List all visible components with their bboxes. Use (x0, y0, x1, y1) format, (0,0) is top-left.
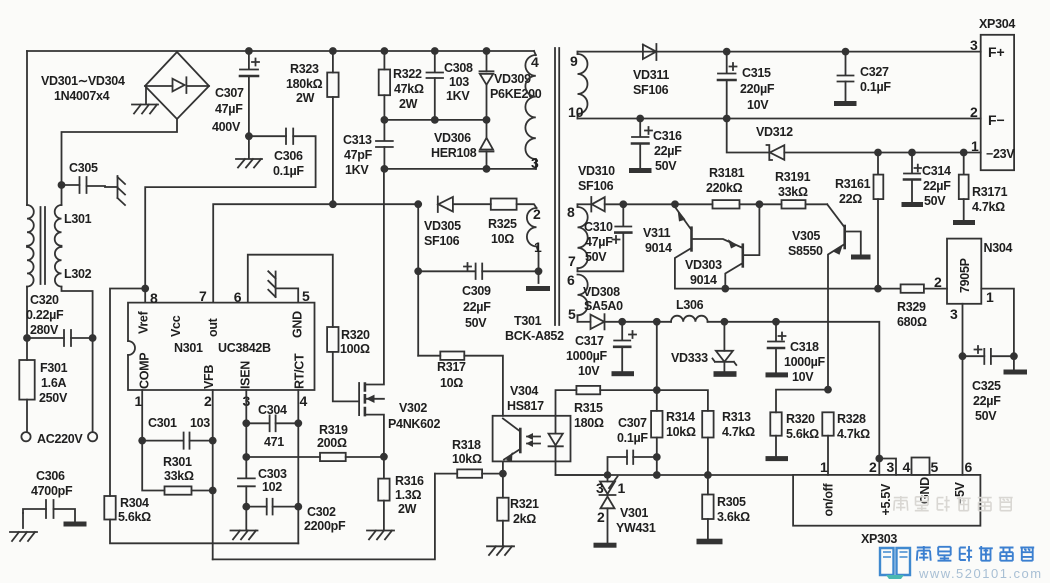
node: -23V line at R3161 (874, 149, 882, 157)
svg-text:200Ω: 200Ω (317, 436, 347, 450)
node: pin8/Vref junction (141, 285, 149, 303)
ground bar (black) below R320 (766, 456, 789, 461)
ground bar (black) below C317 (612, 371, 635, 376)
wire: protection line to R329 node (675, 285, 878, 293)
svg-text:47pF: 47pF (344, 148, 373, 162)
wire: bridge bottom to C305 node (62, 119, 178, 205)
svg-text:3: 3 (596, 480, 604, 496)
svg-text:50V: 50V (975, 409, 997, 423)
ground bar (black) at C306 right (64, 522, 87, 527)
svg-text:on/off: on/off (822, 482, 836, 516)
inductor L301 (common-mode choke upper) (27, 205, 92, 246)
resistor R304 5.6kQ (104, 496, 298, 543)
wire: +5.5V rail right (708, 318, 880, 475)
transformer secondary winding 9-10 (568, 52, 588, 120)
label AC220V (37, 432, 83, 446)
inductor L302 (common-mode choke lower) (27, 247, 92, 287)
wire: left AC rail down to choke (26, 51, 28, 205)
wire: N304 pin3 to -5V (962, 304, 964, 475)
svg-text:1.6A: 1.6A (41, 376, 66, 390)
svg-text:C316: C316 (653, 129, 682, 143)
svg-text:S8550: S8550 (788, 244, 823, 258)
svg-text:R318: R318 (452, 438, 481, 452)
wire: F- line pin10 (578, 115, 981, 123)
svg-text:C301: C301 (148, 416, 177, 430)
IC N301 UC3842B (128, 303, 315, 390)
svg-text:L306: L306 (676, 298, 704, 312)
transistor V311 9014 (643, 204, 692, 288)
watermark ghost text (894, 496, 1013, 512)
svg-text:R3161: R3161 (835, 177, 871, 191)
capacitor C314 22uF 50V (electrolytic) (904, 153, 951, 209)
capacitor C306 0.1uF (145, 129, 315, 289)
svg-text:R328: R328 (837, 412, 866, 426)
svg-text:2: 2 (533, 206, 541, 222)
svg-text:4.7kΩ: 4.7kΩ (722, 425, 755, 439)
capacitor C309 22uF 50V (electrolytic) (418, 263, 538, 330)
wire: opto emitter (499, 461, 507, 477)
svg-text:VD301∼VD304: VD301∼VD304 (41, 74, 125, 88)
svg-text:V302: V302 (399, 401, 427, 415)
node: HV rail at VD309 (483, 47, 491, 55)
svg-text:R320: R320 (786, 412, 815, 426)
node: HV rail at C307 (245, 47, 253, 55)
svg-text:R304: R304 (120, 496, 149, 510)
svg-text:50V: 50V (585, 250, 607, 264)
diode VD311 SF106 (633, 44, 669, 97)
svg-text:C303: C303 (258, 467, 287, 481)
pin number 3 (243, 393, 251, 409)
transformer secondary winding 8-7 (567, 204, 588, 271)
resistor R320 100Q (gate drive) (327, 327, 370, 401)
svg-text:V311: V311 (643, 226, 671, 240)
ground (bridge left corner, chassis) (132, 86, 158, 114)
ground bar (black) below R3171 (953, 220, 975, 225)
svg-text:180Ω: 180Ω (574, 416, 604, 430)
regulator N304 7905P (934, 239, 1013, 322)
wire: reference line to XP303 (556, 471, 794, 479)
svg-text:V301: V301 (620, 506, 648, 520)
svg-text:1KV: 1KV (345, 163, 369, 177)
svg-text:VFB: VFB (202, 365, 216, 389)
resistor R3191 33kQ (775, 170, 811, 209)
pin number 2 (204, 393, 212, 409)
svg-text:9014: 9014 (690, 273, 717, 287)
capacitor C325 22uF 50V (electrolytic) (959, 346, 1018, 423)
svg-text:280V: 280V (30, 323, 59, 337)
svg-text:9: 9 (570, 53, 578, 69)
svg-text:C307: C307 (618, 416, 647, 430)
wire: F+ line pin9 (578, 51, 981, 53)
svg-text:9014: 9014 (645, 241, 672, 255)
svg-text:R322: R322 (393, 67, 422, 81)
svg-text:+5.5V: +5.5V (879, 483, 893, 515)
pin number 5 XP303 (931, 459, 939, 475)
svg-text:8: 8 (150, 290, 158, 306)
pin number 7 (199, 288, 207, 304)
svg-text:www.520101.com: www.520101.com (918, 566, 1043, 581)
resistor R3171 4.7kQ (959, 153, 1008, 221)
svg-text:F301: F301 (40, 361, 68, 375)
svg-text:4700pF: 4700pF (31, 484, 73, 498)
node: HV rail at C308 (431, 47, 439, 55)
svg-text:VD303: VD303 (685, 258, 722, 272)
svg-text:COMP: COMP (138, 353, 152, 389)
svg-text:R319: R319 (319, 423, 348, 437)
svg-text:R323: R323 (290, 62, 319, 76)
terminal AC220V right (88, 432, 97, 441)
resistor R319 200Q (246, 423, 384, 461)
pin number 1 (135, 393, 143, 409)
svg-text:6: 6 (567, 272, 575, 288)
svg-text:5: 5 (302, 288, 310, 304)
diode VD306 HER108 (431, 120, 494, 169)
svg-text:VD305: VD305 (424, 219, 461, 233)
svg-text:2200pF: 2200pF (304, 519, 346, 533)
svg-text:7905P: 7905P (958, 258, 972, 293)
svg-text:R321: R321 (510, 497, 539, 511)
svg-text:V304: V304 (510, 384, 538, 398)
node: R329 junction (874, 285, 882, 293)
wire: pin8 node to R304 rail (110, 289, 145, 497)
svg-text:2W: 2W (399, 97, 418, 111)
resistor R316 1.3Q 2W (378, 457, 424, 531)
svg-text:33kΩ: 33kΩ (778, 185, 808, 199)
svg-text:3: 3 (531, 155, 539, 171)
transistor V302 P4NK602 (MOSFET) (359, 169, 440, 457)
capacitor C302 2200pF (242, 499, 346, 533)
svg-text:4: 4 (531, 54, 539, 70)
diode VD305 SF106 (414, 197, 490, 249)
node: HV rail at R323 (329, 47, 337, 55)
node: aux winding pin1 (535, 267, 543, 283)
pin number 3 XP303 (887, 459, 895, 475)
resistor R315 180Q (574, 386, 657, 430)
svg-text:SF106: SF106 (633, 83, 669, 97)
transformer secondary winding 6-5 (567, 272, 588, 322)
svg-text:0.1µF: 0.1µF (617, 431, 648, 445)
capacitor C320 0.22uF 280V (23, 293, 96, 346)
svg-text:R316: R316 (395, 474, 424, 488)
svg-text:10Ω: 10Ω (440, 376, 463, 390)
svg-text:GND: GND (291, 311, 305, 338)
wire: right rail choke to C320 and AC terminal (62, 287, 93, 432)
svg-text:SF106: SF106 (578, 179, 614, 193)
transformer T301 BCK-A852 primary winding 4-3 (525, 51, 539, 171)
pin number 4 XP303 (903, 459, 911, 475)
svg-text:5: 5 (568, 306, 576, 322)
svg-text:10V: 10V (578, 364, 600, 378)
svg-text:1: 1 (618, 480, 626, 496)
svg-text:R301: R301 (163, 455, 192, 469)
diode VD310 SF106 (578, 164, 624, 212)
ground bar (black) below C325 (1004, 370, 1028, 375)
wire: bottom feedback rail (213, 474, 435, 560)
svg-text:1: 1 (986, 289, 994, 305)
svg-text:C320: C320 (30, 293, 59, 307)
node: -23V line at C314 (908, 149, 916, 157)
svg-text:1: 1 (971, 138, 979, 154)
svg-text:2W: 2W (398, 502, 417, 516)
svg-text:2: 2 (869, 459, 877, 475)
ground (chassis below R321) (487, 546, 514, 555)
pin number 4 (300, 393, 308, 409)
capacitor C307 0.1uF (secondary) (608, 416, 661, 475)
svg-text:V305: V305 (792, 229, 820, 243)
svg-text:22µF: 22µF (654, 144, 682, 158)
ground (slanted chassis at pin5) (268, 271, 275, 297)
svg-text:0.1µF: 0.1µF (273, 164, 304, 178)
svg-text:1000µF: 1000µF (784, 355, 826, 369)
node: C315 top (723, 48, 731, 56)
svg-text:XP303: XP303 (861, 532, 897, 546)
wire: top-left HV rail (27, 50, 534, 52)
svg-text:22Ω: 22Ω (839, 192, 862, 206)
svg-text:F−: F− (988, 112, 1005, 128)
svg-text:2: 2 (597, 509, 605, 525)
svg-text:3: 3 (970, 37, 978, 53)
svg-text:2kΩ: 2kΩ (513, 512, 536, 526)
svg-text:out: out (206, 317, 220, 337)
svg-text:10V: 10V (792, 370, 814, 384)
svg-text:HER108: HER108 (431, 146, 477, 160)
svg-text:2: 2 (934, 274, 942, 290)
capacitor C310 47uF 50V (electrolytic) (578, 204, 632, 271)
svg-text:50V: 50V (465, 316, 487, 330)
pin number 2 XP303 (869, 459, 877, 475)
svg-text:N301: N301 (174, 341, 203, 355)
resistor R322 47kQ 2W (379, 51, 424, 120)
wire: opto LED cathode to V301 node (556, 461, 608, 475)
svg-text:33kΩ: 33kΩ (164, 469, 194, 483)
svg-text:22µF: 22µF (923, 179, 951, 193)
svg-text:1N4007x4: 1N4007x4 (54, 89, 110, 103)
svg-text:4: 4 (903, 459, 911, 475)
svg-text:RT/CT: RT/CT (293, 353, 307, 389)
connector XP303 (793, 475, 980, 546)
resistor R318 10kQ (435, 438, 503, 478)
optocoupler V304 HS817 (493, 384, 571, 462)
svg-text:680Ω: 680Ω (897, 315, 927, 329)
transformer core (555, 48, 559, 325)
svg-text:4.7kΩ: 4.7kΩ (837, 427, 870, 441)
svg-text:22µF: 22µF (973, 394, 1001, 408)
svg-text:1000µF: 1000µF (566, 349, 608, 363)
diode VD312 (zener) (727, 119, 981, 161)
node: MOSFET source / R319 / R316 (380, 453, 388, 461)
capacitor C305 (62, 161, 106, 193)
svg-text:C306: C306 (36, 469, 65, 483)
svg-text:6: 6 (234, 289, 242, 305)
diode VD333 (zener) (671, 322, 736, 371)
watermark site name (917, 546, 1034, 562)
wire: opto LED anode to R315 (556, 390, 577, 416)
resistor R305 3.6kQ (702, 475, 750, 539)
svg-text:10Ω: 10Ω (491, 232, 514, 246)
bridge rectifier VD301~VD304 (145, 52, 209, 119)
svg-text:C325: C325 (972, 379, 1001, 393)
watermark url (918, 566, 1043, 581)
label T301 BCK-A852 (505, 314, 564, 343)
svg-text:R325: R325 (488, 217, 517, 231)
svg-text:YW431: YW431 (616, 521, 656, 535)
svg-text:47µF: 47µF (215, 102, 243, 116)
svg-text:5: 5 (931, 459, 939, 475)
svg-text:R3191: R3191 (775, 170, 811, 184)
ground bar (black) below C327 (834, 101, 857, 106)
svg-text:2W: 2W (296, 91, 315, 105)
svg-text:Vcc: Vcc (169, 315, 183, 337)
pin number 1 XP303 (820, 459, 828, 475)
node: C327 top (842, 48, 850, 56)
node: C307 bottom / C306 junction (245, 132, 253, 140)
terminal AC220V left (21, 432, 30, 441)
svg-text:C302: C302 (307, 505, 336, 519)
watermark book icon (880, 548, 910, 579)
resistor R313 4.7kQ (657, 390, 755, 475)
svg-text:GND: GND (918, 477, 932, 504)
ground (chassis below R316) (367, 531, 394, 540)
wire: C309 line aux winding (414, 204, 422, 356)
svg-text:7: 7 (568, 253, 576, 269)
svg-text:10V: 10V (747, 98, 769, 112)
svg-text:C308: C308 (444, 61, 473, 75)
svg-text:C314: C314 (922, 164, 951, 178)
pin bridge 4-5 on XP303 (912, 458, 930, 475)
svg-text:R313: R313 (722, 410, 751, 424)
fuse F301 1.6A 250V (19, 360, 68, 432)
capacitor C313 47pF 1KV (343, 120, 393, 177)
capacitor C306 4700pF (23, 469, 75, 528)
transistor VD303 9014 (685, 204, 759, 288)
resistor R323 180kQ 2W (286, 51, 339, 204)
svg-text:VD311: VD311 (633, 68, 669, 82)
svg-text:5.6kΩ: 5.6kΩ (118, 510, 151, 524)
choke core lines (41, 207, 46, 284)
svg-text:VD312: VD312 (756, 125, 793, 139)
wire: pin5 GND to chassis (276, 288, 299, 302)
svg-text:10kΩ: 10kΩ (452, 452, 482, 466)
node: HV rail at R322 (381, 47, 389, 55)
svg-text:3: 3 (887, 459, 895, 475)
pin number 8 (150, 290, 158, 306)
node: R323 bottom on Vcc line (329, 200, 337, 208)
svg-text:R315: R315 (574, 401, 603, 415)
svg-text:C306: C306 (274, 149, 303, 163)
svg-text:C313: C313 (343, 133, 372, 147)
resistor R314 10kQ (651, 322, 696, 475)
svg-text:BCK-A852: BCK-A852 (505, 329, 564, 343)
ground bar (black) below C318 (766, 372, 789, 377)
svg-text:HS817: HS817 (507, 399, 544, 413)
svg-text:47kΩ: 47kΩ (394, 82, 424, 96)
svg-text:C318: C318 (790, 340, 819, 354)
resistor R328 4.7kQ (822, 412, 870, 475)
svg-text:−23V: −23V (986, 147, 1015, 161)
svg-text:7: 7 (199, 288, 207, 304)
svg-text:400V: 400V (212, 120, 241, 134)
resistor R3181 220kQ (706, 166, 745, 209)
svg-text:R305: R305 (717, 495, 746, 509)
svg-text:P6KE200: P6KE200 (490, 87, 542, 101)
svg-text:C309: C309 (462, 284, 491, 298)
svg-text:VD310: VD310 (578, 164, 615, 178)
wire: drain line to transformer pin 3 (381, 160, 537, 173)
wire: N304 pin1 to C325 (981, 289, 1014, 357)
svg-text:1KV: 1KV (446, 89, 470, 103)
ground bar (black) below V301 (594, 543, 617, 548)
svg-text:L301: L301 (64, 212, 92, 226)
svg-text:22µF: 22µF (463, 300, 491, 314)
svg-text:R329: R329 (897, 300, 926, 314)
ground (chassis below C307) (236, 159, 262, 168)
svg-text:L302: L302 (64, 267, 92, 281)
capacitor C308 103 1KV (427, 51, 474, 120)
svg-text:R314: R314 (666, 410, 695, 424)
svg-text:C307: C307 (215, 86, 244, 100)
svg-text:C315: C315 (742, 66, 771, 80)
capacitor C307 47uF 400V (electrolytic) (212, 51, 259, 158)
svg-text:R317: R317 (437, 360, 466, 374)
svg-text:SA5A0: SA5A0 (584, 299, 623, 313)
svg-text:220kΩ: 220kΩ (706, 181, 743, 195)
ground bar (black) T301 pin1 (526, 286, 550, 291)
svg-text:2: 2 (204, 393, 212, 409)
svg-text:SF106: SF106 (424, 234, 460, 248)
svg-text:XP304: XP304 (979, 17, 1015, 31)
node: -23V line at R3171 (960, 149, 968, 157)
svg-text:180kΩ: 180kΩ (286, 77, 323, 91)
svg-text:103: 103 (449, 75, 469, 89)
svg-text:VD308: VD308 (583, 285, 620, 299)
svg-text:1: 1 (534, 239, 542, 255)
svg-text:47µF: 47µF (585, 235, 613, 249)
wire: mid line R322/C308/VD309 (381, 116, 491, 124)
svg-text:102: 102 (262, 480, 282, 494)
wire: pin2 down (212, 390, 214, 559)
wire: left rail choke to C320 and F301 (26, 287, 28, 360)
svg-text:C310: C310 (584, 220, 613, 234)
capacitor C301 103 (138, 416, 216, 449)
resistor R317 10Q (418, 352, 503, 416)
svg-text:6: 6 (965, 459, 973, 475)
capacitor C315 220uF 10V (electrolytic) (718, 52, 775, 119)
ground bar (black) below R305 (697, 539, 723, 545)
resistor R329 680Q (878, 284, 947, 329)
ground bar (black) below VD333 (714, 371, 737, 377)
capacitor C304 471 (242, 403, 302, 449)
svg-text:N304: N304 (984, 241, 1013, 255)
svg-text:C305: C305 (69, 161, 98, 175)
svg-text:P4NK602: P4NK602 (388, 417, 440, 431)
ground (chassis below C306 4700pF) (10, 532, 37, 541)
wire: pin6 out to R320 (248, 255, 333, 327)
svg-text:2: 2 (970, 104, 978, 120)
connector XP304 (970, 17, 1015, 170)
pin bridge 2-3 on XP303 (875, 455, 896, 475)
resistor R320 5.6kQ (secondary) (770, 390, 828, 457)
resistor R325 10Q (488, 199, 537, 247)
pin number 5 (302, 288, 310, 304)
svg-text:50V: 50V (924, 194, 946, 208)
wire: pin3 down (245, 390, 247, 478)
svg-text:C304: C304 (258, 403, 287, 417)
svg-text:50V: 50V (655, 159, 677, 173)
ground bar (black) below C316 (629, 168, 652, 173)
diode VD309 P6KE200 (TVS) (480, 51, 542, 120)
diode VD308 SA5A0 (578, 285, 624, 329)
svg-text:220µF: 220µF (740, 82, 775, 96)
